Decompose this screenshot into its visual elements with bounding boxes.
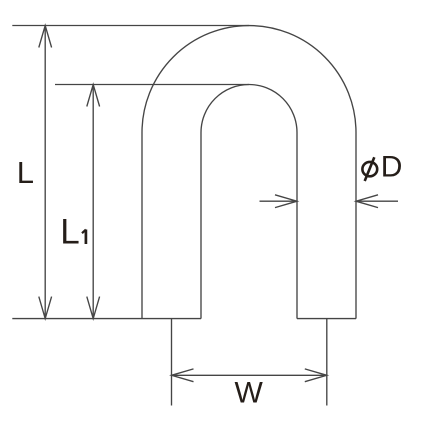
arrowhead L1 bottom <box>87 297 100 319</box>
arrowhead L top <box>39 26 52 48</box>
arrowhead L bottom <box>39 297 52 319</box>
arrowhead phiD pointing left <box>356 195 378 208</box>
arrowhead phiD pointing right <box>275 195 297 208</box>
dimension line L1 <box>92 85 94 319</box>
svg-text:L: L <box>60 213 79 252</box>
arrowhead W left <box>172 369 194 382</box>
svg-text:D: D <box>381 150 403 183</box>
arrowhead W right <box>305 369 327 382</box>
U-bend tube outer outline <box>142 26 356 319</box>
phiD dimension line left <box>260 200 298 202</box>
bottom extension baseline <box>12 318 201 320</box>
L1 extension line (inner tangent) <box>55 84 249 86</box>
W extension line right <box>326 319 328 406</box>
W extension line left <box>171 319 173 406</box>
label phi of phiD <box>362 157 377 181</box>
arrowhead L1 top <box>87 85 100 107</box>
top extension line (outer tangent) <box>12 25 249 27</box>
svg-text:W: W <box>235 377 264 410</box>
svg-text:L: L <box>17 155 34 190</box>
W dimension line <box>172 374 327 376</box>
dimension line L <box>44 26 46 319</box>
right leg bottom cap <box>297 318 356 320</box>
phiD dimension line right <box>356 200 398 202</box>
U-bend tube inner outline <box>201 85 297 319</box>
